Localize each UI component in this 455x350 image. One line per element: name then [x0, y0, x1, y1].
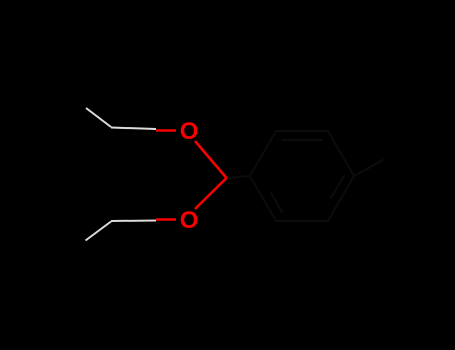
bond CH3-CH2 bottom ethyl (white) — [86, 222, 112, 241]
bond CH2-O carbon half, top (white) — [111, 128, 156, 130]
bond CH3-CH2 top ethyl (white) — [86, 108, 111, 127]
bond C4-CH3 para methyl (faint) — [354, 160, 383, 176]
bond CH2-O carbon half, bottom (white) — [111, 220, 156, 223]
bond CH2-O oxygen half, bottom (red) — [156, 218, 176, 221]
svg-text:O: O — [180, 118, 199, 145]
bond O-CH acetal diagonal, bottom (red) — [195, 178, 227, 209]
svg-text:O: O — [180, 207, 199, 234]
bond CH2-O oxygen half, top (red) — [156, 129, 176, 132]
bond O-CH acetal diagonal, top (red) — [195, 141, 227, 178]
bond CH(acetal)-C1 ring attach (faint) — [227, 176, 251, 178]
benzene ring C1-C6 (near-black faint) — [250, 131, 354, 221]
